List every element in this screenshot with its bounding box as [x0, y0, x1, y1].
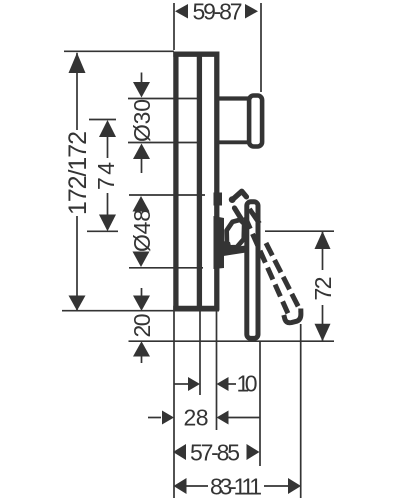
node arrow 59-87 right [245, 4, 258, 19]
wire 10 left tail [174, 383, 189, 385]
node arrow 20 down [133, 296, 150, 311]
node arrow 83-111 left [174, 478, 187, 494]
svg-text:57-85: 57-85 [190, 440, 240, 466]
wire top-dim left extension [173, 3, 175, 50]
wire 74 dimension line upper [107, 132, 109, 158]
lever dashed tip cap [284, 309, 301, 323]
node arrow dia48 up [133, 196, 150, 212]
wire wall extension column [199, 311, 201, 395]
wire 10 right tail [229, 383, 237, 385]
lever rotated grip dash [235, 208, 242, 219]
node arrow 57-85 left [173, 444, 186, 460]
svg-text:Ø30: Ø30 [129, 99, 155, 142]
knob cap [249, 96, 262, 147]
mechanism cartridge block [214, 216, 225, 269]
node arrow 10 right [188, 377, 200, 391]
node arrow dia48 down [133, 252, 150, 268]
wire 20 upper tail [141, 288, 143, 298]
svg-text:28: 28 [184, 405, 209, 431]
wire dia48 top extension [129, 194, 205, 196]
wire dia30 top extension [128, 98, 199, 100]
svg-text:72: 72 [310, 277, 336, 301]
wire 172 dimension line upper [76, 53, 78, 130]
svg-text:Ø48: Ø48 [129, 209, 155, 252]
lever dashed right edge [250, 209, 260, 224]
wire 72 dimension line upper [322, 231, 324, 270]
valve top edge [173, 52, 219, 57]
node arrow 74 up [99, 120, 116, 137]
lever grip hook [232, 191, 246, 200]
wire dia30 upper tail [141, 73, 143, 85]
wire front extension column [216, 311, 218, 430]
lever grip hook ball end [229, 196, 236, 203]
lever dashed right edge lower [266, 243, 301, 311]
svg-text:83-111: 83-111 [210, 474, 262, 500]
valve plate front edge [214, 52, 219, 311]
node arrow 28 right [162, 411, 174, 425]
node arrow 83-111 right [288, 478, 301, 494]
wire dia48 bottom extension [129, 267, 203, 269]
node arrow 10 left [217, 377, 229, 391]
node arrow 172 up [69, 53, 86, 73]
node arrow dia30 up [133, 144, 150, 160]
node arrow 72 up [315, 231, 331, 249]
node arrow 172 down [69, 296, 86, 311]
node arrow 57-85 right [247, 444, 260, 460]
wire 83-111 dim line right [264, 485, 288, 487]
node arrow 59-87 left [175, 4, 188, 19]
wire 72 top extension [265, 230, 334, 232]
wire 83-111 dim line left [186, 485, 208, 487]
wire 74 dimension line lower [107, 193, 109, 218]
node arrow 74 down [99, 215, 116, 232]
wire 172 bottom extension [62, 310, 219, 312]
lever hub bottom dark stroke [223, 249, 246, 253]
lever dashed left edge [243, 212, 288, 314]
wire 172 top extension [64, 50, 174, 52]
wire lever-front extension column [259, 341, 261, 466]
node arrow 20 up [133, 341, 150, 356]
svg-text:172/172: 172/172 [64, 131, 92, 215]
node arrow 28 left [217, 411, 229, 425]
wire 20 lower tail [141, 354, 143, 363]
wire dia30 lower tail [141, 157, 143, 173]
wire back extension column [173, 311, 175, 498]
wire dia30 bottom extension [128, 142, 199, 144]
svg-text:74: 74 [93, 162, 119, 190]
valve bottom edge [173, 306, 217, 311]
lever hub lower-left dark fill [222, 241, 232, 250]
wire 74 bottom extension [87, 230, 118, 232]
wire top-dim right extension [260, 3, 262, 92]
wire 74 top extension [89, 119, 116, 121]
valve wall line [197, 52, 202, 311]
wire 172 dimension line lower [76, 216, 78, 311]
wire 72 dimension line lower [322, 305, 324, 341]
wire dashed-tip extension column [300, 324, 302, 498]
svg-text:59-87: 59-87 [193, 0, 243, 25]
lever hub outline [227, 220, 245, 248]
node arrow dia30 down [133, 82, 150, 98]
wire 28 left tail [148, 417, 161, 419]
knob stem bottom line [219, 140, 248, 144]
mechanism upper screw block [214, 193, 223, 206]
lever handle solid bar [247, 202, 258, 339]
svg-text:10: 10 [237, 371, 258, 397]
knob stem top line [219, 96, 249, 100]
wire 28 right tail [229, 417, 261, 419]
valve body back edge [173, 52, 178, 311]
svg-text:20: 20 [129, 314, 155, 338]
node arrow 72 down [315, 324, 331, 342]
wire lever bottom extension [129, 340, 335, 342]
